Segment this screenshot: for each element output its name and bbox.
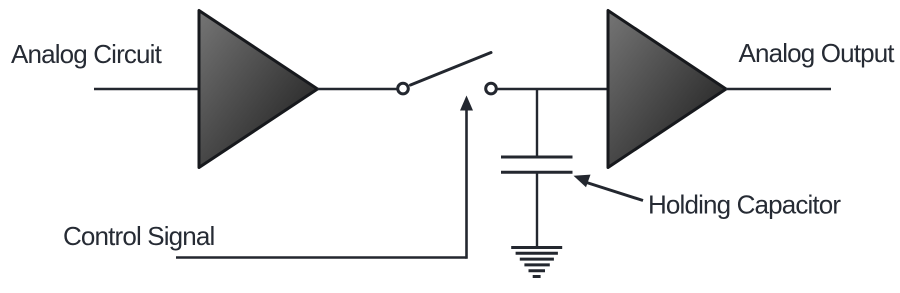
op-amp U2 (output buffer) — [608, 11, 726, 168]
wire control signal horizontal — [176, 256, 467, 259]
capacitor C1 top plate — [501, 156, 573, 159]
arrowhead to switch — [460, 96, 473, 111]
wire input to U1 — [94, 88, 199, 90]
wire U2 output — [726, 88, 831, 90]
annotation arrowhead — [574, 175, 591, 188]
capacitor C1 bottom plate — [501, 171, 573, 174]
svg-text:Analog Circuit: Analog Circuit — [11, 39, 163, 69]
wire switch to U2 — [498, 88, 609, 90]
switch blade — [411, 53, 492, 86]
wire node to capacitor — [536, 89, 538, 157]
annotation arrow line — [585, 182, 643, 201]
wire U1 output to switch — [318, 88, 397, 90]
switch left contact — [398, 83, 409, 94]
ground — [511, 248, 562, 277]
wire control signal vertical — [465, 108, 468, 259]
op-amp U1 (input buffer) — [199, 11, 318, 168]
svg-text:Control Signal: Control Signal — [63, 221, 214, 251]
svg-text:Analog Output: Analog Output — [739, 38, 896, 68]
svg-text:Holding Capacitor: Holding Capacitor — [648, 190, 841, 220]
switch right contact — [486, 83, 497, 94]
wire capacitor to ground — [536, 172, 538, 247]
